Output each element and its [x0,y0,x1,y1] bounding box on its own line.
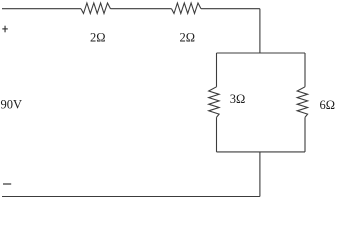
wire box top edge [217,52,306,54]
wire box left lower lead [216,117,218,152]
wire box bottom edge [217,151,306,153]
resistor R4 zigzag (6 ohm) [297,87,307,118]
svg-text:90V: 90V [1,98,23,112]
svg-text:3Ω: 3Ω [230,92,246,106]
svg-text:2Ω: 2Ω [90,31,106,45]
resistor R1 zigzag [81,3,111,14]
wire right vertical drop to parallel box [259,9,261,53]
wire bottom rail [2,196,260,198]
wire box right lower lead [304,117,306,152]
minus terminal label [3,183,11,185]
wire top-left segment [2,8,81,10]
svg-text:6Ω: 6Ω [320,98,336,112]
resistor R2 zigzag [172,3,202,14]
wire top-right segment [201,8,260,10]
svg-text:2Ω: 2Ω [180,31,196,45]
resistor R3 zigzag (3 ohm) [209,87,219,118]
wire box right upper lead [304,53,306,87]
plus terminal label [2,26,8,33]
wire between R1 and R2 [111,8,172,10]
wire box left upper lead [216,53,218,87]
wire bottom vertical from box to bottom rail [259,152,261,197]
